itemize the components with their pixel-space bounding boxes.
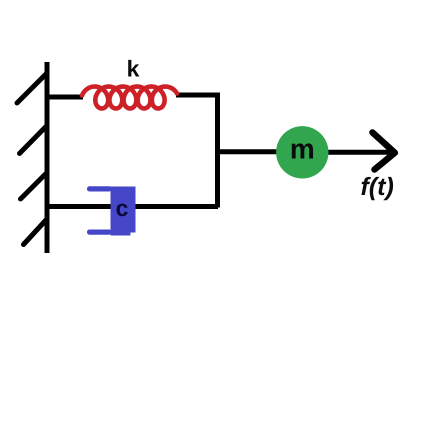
wall vertical line [45,62,50,253]
wire: right vertical bus [215,93,220,208]
label c [116,204,127,217]
damper bottom arm [87,230,112,235]
wall hatch 4 [24,220,47,245]
label k [128,60,139,77]
wire: bottom line wall to right bus [45,204,218,209]
arrowhead of f(t) [373,133,395,170]
damper top arm [87,186,112,191]
wire: mass to arrow shaft [325,150,392,155]
wall hatch 2 [20,127,47,154]
damper c body (piston plate) [111,187,136,233]
damper bottom step [111,230,131,236]
wall hatch 1 [17,74,47,104]
mass m (green circle) [276,126,328,178]
spring k (red coil) [82,87,177,109]
wire: wall to spring (top left) [45,95,83,100]
wall hatch 3 [21,174,47,200]
label f(t) [361,177,393,200]
label m [292,143,313,158]
wire: spring to top-right corner [176,93,220,98]
wire: middle line bus to mass [218,149,280,154]
